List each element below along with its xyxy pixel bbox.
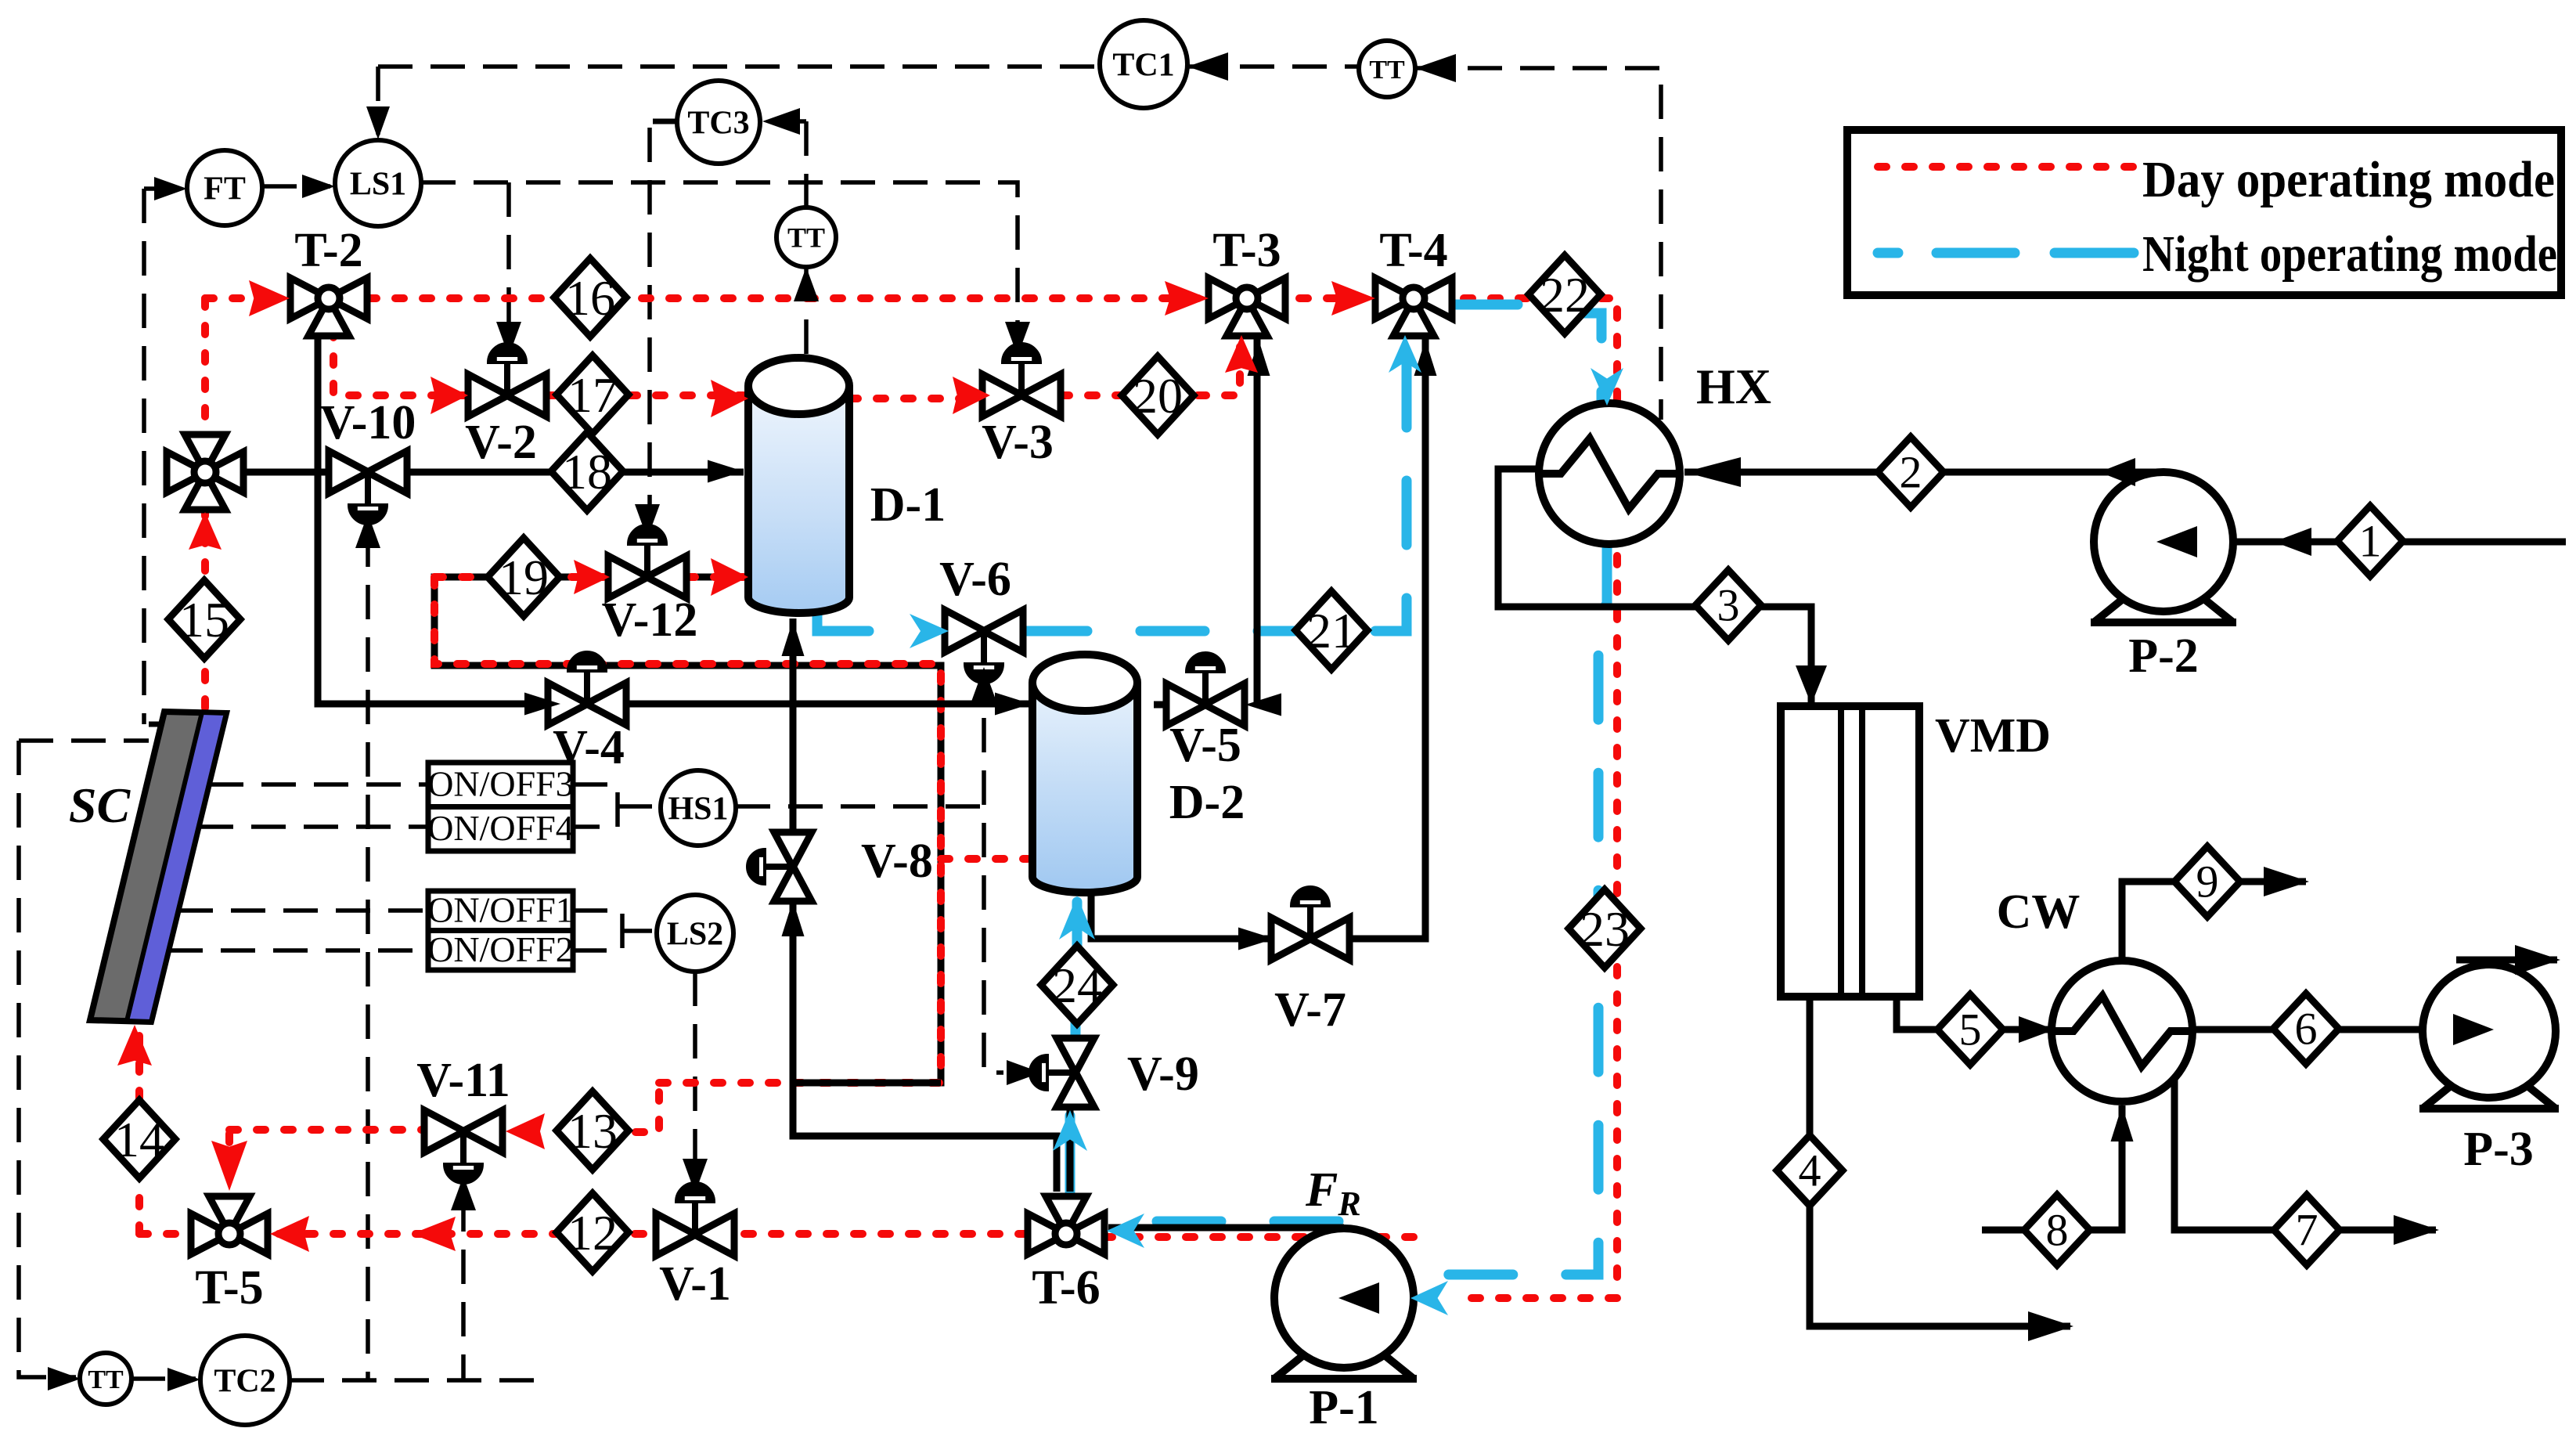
svg-text:TC3: TC3 (687, 106, 749, 142)
svg-text:SC: SC (69, 777, 132, 833)
svg-text:V-3: V-3 (982, 416, 1054, 469)
svg-text:V-12: V-12 (602, 593, 698, 647)
svg-text:P-3: P-3 (2463, 1123, 2534, 1176)
svg-text:ON/OFF4: ON/OFF4 (427, 808, 574, 848)
svg-text:CW: CW (1997, 885, 2081, 939)
svg-text:V-9: V-9 (1127, 1048, 1199, 1101)
svg-text:14: 14 (114, 1112, 164, 1167)
svg-text:V-11: V-11 (416, 1054, 510, 1107)
svg-text:T-3: T-3 (1212, 224, 1281, 277)
svg-text:15: 15 (179, 592, 229, 647)
svg-text:7: 7 (2296, 1205, 2318, 1256)
svg-text:V-8: V-8 (861, 835, 933, 888)
svg-text:D-2: D-2 (1169, 776, 1245, 829)
svg-text:24: 24 (1052, 958, 1102, 1013)
svg-text:1: 1 (2359, 516, 2382, 567)
svg-text:D-1: D-1 (870, 478, 946, 532)
svg-text:T-4: T-4 (1379, 224, 1447, 277)
svg-text:Night operating mode: Night operating mode (2142, 225, 2557, 283)
svg-text:ON/OFF2: ON/OFF2 (427, 929, 574, 969)
svg-text:TT: TT (1369, 56, 1405, 85)
svg-text:V-5: V-5 (1169, 719, 1241, 772)
svg-text:17: 17 (567, 367, 618, 423)
svg-text:Day operating mode: Day operating mode (2142, 151, 2555, 208)
svg-text:T-6: T-6 (1032, 1261, 1100, 1315)
svg-text:19: 19 (499, 550, 549, 605)
svg-text:V-4: V-4 (553, 721, 625, 774)
svg-text:20: 20 (1133, 368, 1183, 424)
svg-text:LS1: LS1 (350, 167, 406, 203)
svg-text:4: 4 (1799, 1145, 1821, 1196)
svg-text:ON/OFF3: ON/OFF3 (427, 763, 574, 803)
svg-text:6: 6 (2295, 1004, 2318, 1055)
svg-text:22: 22 (1540, 267, 1590, 323)
svg-text:3: 3 (1717, 580, 1740, 631)
svg-text:TT: TT (88, 1365, 124, 1394)
svg-text:ON/OFF1: ON/OFF1 (427, 889, 574, 929)
svg-text:T-2: T-2 (294, 224, 362, 277)
svg-text:21: 21 (1306, 603, 1356, 658)
svg-text:LS2: LS2 (667, 917, 723, 953)
svg-text:HS1: HS1 (668, 792, 728, 828)
svg-text:23: 23 (1580, 901, 1630, 957)
svg-text:9: 9 (2196, 857, 2219, 907)
svg-text:V-7: V-7 (1274, 983, 1346, 1037)
svg-text:TC2: TC2 (214, 1364, 276, 1400)
svg-text:FT: FT (204, 171, 246, 207)
svg-text:2: 2 (1900, 447, 1922, 498)
svg-text:P-1: P-1 (1309, 1381, 1379, 1434)
svg-text:13: 13 (567, 1103, 618, 1159)
svg-text:18: 18 (562, 444, 612, 500)
svg-text:TC1: TC1 (1112, 48, 1174, 84)
svg-text:V-10: V-10 (320, 396, 416, 449)
svg-text:V-1: V-1 (659, 1257, 731, 1311)
svg-text:16: 16 (565, 270, 615, 326)
svg-text:HX: HX (1696, 359, 1771, 414)
svg-text:V-6: V-6 (939, 553, 1011, 606)
svg-text:P-2: P-2 (2128, 629, 2199, 683)
svg-text:TT: TT (787, 222, 825, 254)
svg-text:VMD: VMD (1935, 709, 2051, 763)
svg-text:12: 12 (567, 1205, 618, 1260)
svg-text:5: 5 (1959, 1004, 1982, 1055)
svg-text:8: 8 (2046, 1205, 2069, 1256)
svg-text:T-5: T-5 (195, 1261, 263, 1315)
svg-text:V-2: V-2 (465, 416, 537, 469)
